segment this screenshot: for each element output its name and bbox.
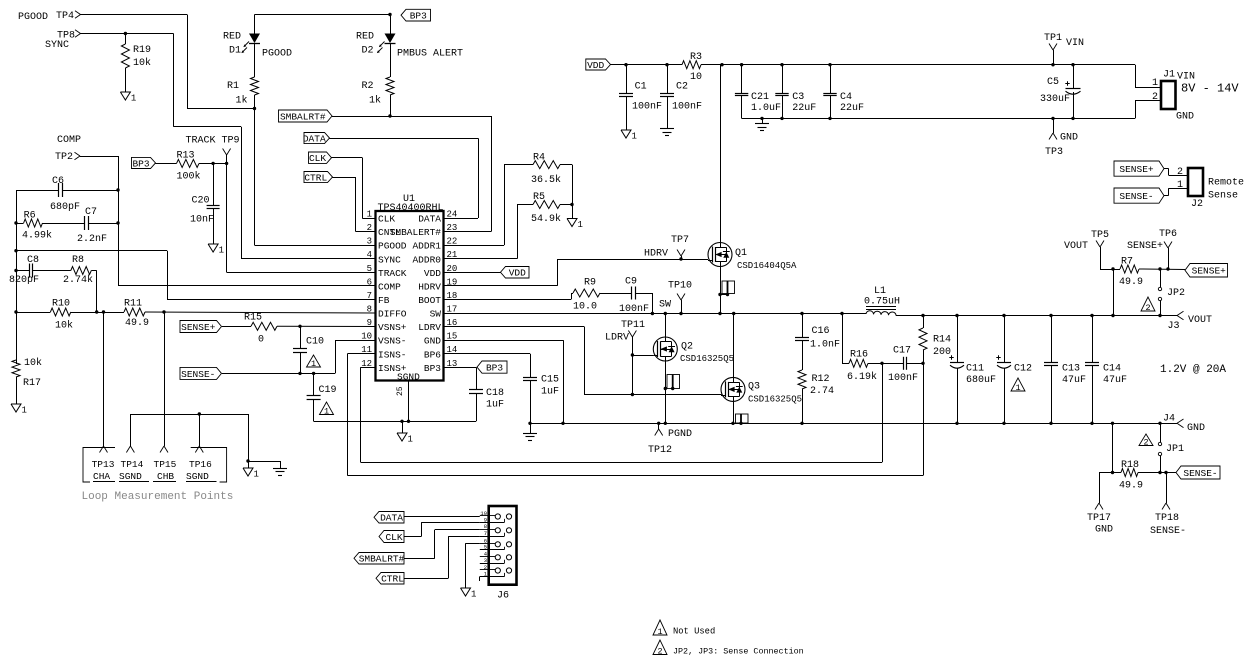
- svg-text:6.19k: 6.19k: [847, 371, 877, 383]
- svg-text:TP1: TP1: [1044, 33, 1062, 44]
- svg-text:C2: C2: [676, 82, 688, 93]
- svg-text:36.5k: 36.5k: [531, 174, 561, 186]
- svg-text:D1: D1: [229, 46, 241, 57]
- svg-text:SENSE+: SENSE+: [1119, 164, 1154, 175]
- svg-text:1: 1: [657, 627, 662, 637]
- svg-text:BP6: BP6: [424, 349, 441, 360]
- svg-text:C12: C12: [1014, 364, 1032, 375]
- svg-text:TP14: TP14: [121, 459, 144, 470]
- svg-text:54.9k: 54.9k: [531, 213, 561, 225]
- svg-text:22uF: 22uF: [792, 103, 816, 114]
- svg-text:2.2nF: 2.2nF: [77, 234, 107, 245]
- svg-text:DATA: DATA: [380, 513, 403, 524]
- svg-text:25: 25: [396, 386, 405, 396]
- svg-text:1.0nF: 1.0nF: [810, 340, 840, 351]
- svg-text:C4: C4: [840, 92, 852, 103]
- svg-text:C14: C14: [1103, 364, 1121, 375]
- svg-text:RED: RED: [223, 32, 241, 43]
- svg-text:C15: C15: [541, 375, 559, 386]
- svg-text:R4: R4: [533, 153, 545, 164]
- svg-text:Q2: Q2: [681, 342, 693, 353]
- svg-text:R7: R7: [1121, 257, 1133, 268]
- svg-text:C6: C6: [52, 176, 64, 187]
- svg-text:CHB: CHB: [157, 471, 174, 482]
- svg-text:PGOOD: PGOOD: [262, 49, 292, 60]
- svg-text:CLK: CLK: [385, 532, 402, 543]
- svg-text:C9: C9: [625, 277, 637, 288]
- svg-text:100nF: 100nF: [672, 102, 702, 113]
- svg-text:SW: SW: [430, 309, 442, 320]
- svg-text:Loop Measurement Points: Loop Measurement Points: [82, 491, 234, 503]
- svg-text:VOUT: VOUT: [1188, 315, 1212, 326]
- svg-text:C3: C3: [792, 92, 804, 103]
- svg-text:R17: R17: [23, 378, 41, 389]
- svg-text:CLK: CLK: [378, 214, 395, 225]
- svg-text:680pF: 680pF: [50, 202, 80, 213]
- svg-text:VSNS-: VSNS-: [378, 336, 407, 347]
- svg-text:CLK: CLK: [309, 153, 326, 164]
- svg-text:J6: J6: [497, 591, 509, 602]
- svg-text:R8: R8: [72, 255, 84, 266]
- svg-text:C8: C8: [27, 255, 39, 266]
- svg-text:1uF: 1uF: [541, 387, 559, 398]
- svg-text:PGOOD: PGOOD: [18, 12, 48, 23]
- svg-text:JP2, JP3: Sense Connection: JP2, JP3: Sense Connection: [673, 647, 804, 657]
- svg-text:C7: C7: [85, 207, 97, 218]
- svg-text:GND: GND: [1060, 133, 1078, 144]
- svg-text:TP15: TP15: [154, 459, 177, 470]
- svg-text:R14: R14: [933, 335, 951, 346]
- svg-text:680uF: 680uF: [966, 375, 996, 386]
- svg-text:100k: 100k: [177, 171, 201, 183]
- svg-text:GND: GND: [1176, 112, 1194, 123]
- svg-text:820pF: 820pF: [9, 275, 39, 286]
- svg-text:ADDR0: ADDR0: [412, 254, 441, 265]
- svg-text:VSNS+: VSNS+: [378, 322, 407, 333]
- svg-text:PGND: PGND: [668, 429, 692, 440]
- svg-text:8: 8: [484, 523, 487, 530]
- svg-text:49.9: 49.9: [1119, 481, 1143, 492]
- svg-text:47uF: 47uF: [1062, 375, 1086, 386]
- svg-text:22uF: 22uF: [840, 103, 864, 114]
- svg-text:C20: C20: [192, 196, 210, 207]
- svg-text:SMBALRT#: SMBALRT#: [280, 111, 326, 122]
- svg-text:CSD16325Q5: CSD16325Q5: [680, 354, 734, 364]
- svg-text:GND: GND: [1187, 423, 1205, 434]
- svg-text:0.75uH: 0.75uH: [864, 297, 900, 308]
- svg-text:SYNC: SYNC: [45, 40, 69, 51]
- svg-text:SENSE-: SENSE-: [181, 369, 215, 380]
- svg-text:R13: R13: [177, 151, 195, 162]
- svg-text:L1: L1: [874, 286, 886, 297]
- svg-text:1: 1: [22, 406, 27, 416]
- svg-text:R15: R15: [244, 313, 262, 324]
- svg-text:10k: 10k: [55, 320, 73, 332]
- svg-text:DATA: DATA: [418, 214, 441, 225]
- svg-text:R1: R1: [227, 81, 239, 92]
- svg-text:DIFFO: DIFFO: [378, 309, 407, 320]
- svg-text:1: 1: [311, 359, 316, 369]
- svg-text:TPS40400RHL: TPS40400RHL: [378, 203, 444, 214]
- svg-text:BP3: BP3: [486, 363, 503, 374]
- svg-text:R11: R11: [124, 299, 142, 310]
- svg-text:1: 1: [471, 590, 476, 600]
- svg-text:SENSE-: SENSE-: [1183, 468, 1217, 479]
- svg-text:GND: GND: [1095, 525, 1113, 536]
- svg-text:R5: R5: [533, 192, 545, 203]
- svg-text:GND: GND: [424, 336, 441, 347]
- svg-text:100nF: 100nF: [632, 102, 662, 113]
- svg-text:SW: SW: [659, 300, 671, 311]
- svg-text:SGND: SGND: [119, 471, 142, 482]
- svg-text:SENSE-: SENSE-: [1119, 191, 1153, 202]
- svg-text:49.9: 49.9: [1119, 277, 1143, 288]
- svg-text:1k: 1k: [369, 95, 381, 107]
- svg-text:C10: C10: [306, 337, 324, 348]
- svg-text:R9: R9: [584, 278, 596, 289]
- svg-text:47uF: 47uF: [1103, 375, 1127, 386]
- svg-text:COMP: COMP: [378, 281, 401, 292]
- svg-text:R16: R16: [850, 350, 868, 361]
- svg-text:2: 2: [1152, 92, 1158, 103]
- svg-text:0: 0: [258, 335, 264, 346]
- svg-text:R6: R6: [24, 211, 36, 222]
- svg-text:4.99k: 4.99k: [22, 230, 52, 242]
- svg-text:BP3: BP3: [410, 11, 427, 22]
- svg-text:1: 1: [408, 435, 413, 445]
- svg-text:J3: J3: [1168, 321, 1180, 332]
- svg-text:TP17: TP17: [1087, 513, 1111, 524]
- svg-text:SMBALERT#: SMBALERT#: [390, 227, 442, 238]
- svg-text:BP3: BP3: [132, 158, 149, 169]
- svg-text:SENSE+: SENSE+: [1127, 241, 1163, 252]
- svg-text:Not Used: Not Used: [673, 627, 715, 637]
- svg-text:R3: R3: [690, 52, 702, 63]
- svg-text:10nF: 10nF: [190, 215, 214, 226]
- svg-text:VDD: VDD: [424, 268, 441, 279]
- svg-text:TRACK: TRACK: [378, 268, 407, 279]
- svg-text:8V - 14V: 8V - 14V: [1181, 82, 1239, 96]
- svg-text:R19: R19: [133, 45, 151, 56]
- svg-text:ISNS-: ISNS-: [378, 349, 407, 360]
- svg-text:HDRV: HDRV: [644, 249, 668, 260]
- svg-text:1: 1: [632, 132, 637, 142]
- svg-text:C11: C11: [966, 364, 984, 375]
- svg-text:C5: C5: [1047, 77, 1059, 88]
- svg-text:JP1: JP1: [1166, 444, 1184, 455]
- svg-text:C16: C16: [812, 326, 830, 337]
- svg-text:BOOT: BOOT: [418, 295, 441, 306]
- svg-text:1.0uF: 1.0uF: [751, 103, 781, 114]
- svg-text:CTRL: CTRL: [381, 574, 404, 585]
- svg-text:CHA: CHA: [93, 471, 110, 482]
- svg-text:TP4: TP4: [56, 11, 74, 22]
- svg-text:J4: J4: [1163, 414, 1175, 425]
- svg-text:1: 1: [1152, 78, 1158, 89]
- svg-text:C19: C19: [319, 385, 337, 396]
- svg-text:D2: D2: [362, 46, 374, 57]
- svg-text:C17: C17: [893, 346, 911, 357]
- svg-text:1: 1: [578, 220, 583, 230]
- svg-text:1k: 1k: [236, 95, 248, 107]
- svg-text:1: 1: [1015, 383, 1020, 393]
- svg-text:200: 200: [933, 347, 951, 358]
- svg-text:CTRL: CTRL: [304, 172, 327, 183]
- svg-text:10: 10: [690, 72, 702, 83]
- svg-text:TP2: TP2: [55, 152, 73, 163]
- svg-text:VDD: VDD: [587, 60, 604, 71]
- svg-text:TP7: TP7: [671, 235, 689, 246]
- svg-text:10k: 10k: [133, 57, 151, 69]
- svg-text:TP3: TP3: [1045, 147, 1063, 158]
- svg-text:Sense: Sense: [1208, 191, 1238, 202]
- svg-text:Q1: Q1: [735, 248, 747, 259]
- svg-text:RED: RED: [356, 32, 374, 43]
- svg-text:LDRV: LDRV: [418, 322, 441, 333]
- svg-text:TP16: TP16: [189, 459, 212, 470]
- svg-text:330uF: 330uF: [1040, 94, 1070, 105]
- svg-text:1: 1: [131, 94, 136, 104]
- svg-text:2: 2: [1145, 303, 1150, 313]
- svg-text:1uF: 1uF: [486, 400, 504, 411]
- svg-text:10.0: 10.0: [573, 302, 597, 313]
- svg-text:R12: R12: [812, 374, 830, 385]
- svg-text:TP13: TP13: [92, 459, 115, 470]
- svg-text:C1: C1: [635, 82, 647, 93]
- svg-text:J1: J1: [1163, 70, 1175, 81]
- svg-text:TP11: TP11: [621, 320, 645, 331]
- svg-text:SENSE-: SENSE-: [1150, 526, 1186, 537]
- svg-text:TRACK TP9: TRACK TP9: [186, 136, 240, 147]
- svg-text:TP5: TP5: [1091, 230, 1109, 241]
- svg-text:7: 7: [484, 530, 487, 537]
- svg-text:BP3: BP3: [424, 363, 441, 374]
- svg-text:VOUT: VOUT: [1064, 241, 1088, 252]
- svg-text:C13: C13: [1062, 364, 1080, 375]
- svg-text:Remote: Remote: [1208, 178, 1244, 189]
- svg-text:100nF: 100nF: [888, 373, 918, 384]
- svg-text:PGOOD: PGOOD: [378, 241, 407, 252]
- svg-text:1.2V @ 20A: 1.2V @ 20A: [1160, 364, 1226, 376]
- svg-text:TP18: TP18: [1155, 513, 1179, 524]
- svg-text:TP12: TP12: [648, 445, 672, 456]
- svg-text:SENSE+: SENSE+: [181, 322, 216, 333]
- svg-text:R2: R2: [362, 81, 374, 92]
- svg-text:HDRV: HDRV: [418, 281, 441, 292]
- svg-text:LDRV: LDRV: [605, 333, 629, 344]
- svg-text:COMP: COMP: [57, 135, 81, 146]
- svg-text:2.74k: 2.74k: [63, 274, 93, 286]
- svg-text:2: 2: [1143, 437, 1148, 447]
- svg-text:DATA: DATA: [303, 133, 326, 144]
- svg-text:1: 1: [219, 246, 224, 256]
- svg-text:JP2: JP2: [1167, 288, 1185, 299]
- svg-text:TP6: TP6: [1159, 229, 1177, 240]
- svg-text:17: 17: [447, 304, 458, 314]
- svg-text:TP10: TP10: [668, 281, 692, 292]
- svg-text:J2: J2: [1191, 199, 1203, 210]
- svg-text:SMBALRT#: SMBALRT#: [359, 554, 405, 565]
- svg-text:1: 1: [1177, 180, 1183, 191]
- svg-text:SYNC: SYNC: [378, 254, 401, 265]
- svg-text:C18: C18: [486, 388, 504, 399]
- svg-text:Q3: Q3: [748, 382, 760, 393]
- svg-text:C21: C21: [751, 92, 769, 103]
- svg-text:2: 2: [1177, 167, 1183, 178]
- svg-text:SGND: SGND: [186, 471, 209, 482]
- svg-text:VDD: VDD: [509, 268, 526, 279]
- svg-text:PMBUS ALERT: PMBUS ALERT: [397, 49, 463, 60]
- svg-text:VIN: VIN: [1066, 38, 1084, 49]
- svg-text:R18: R18: [1121, 460, 1139, 471]
- svg-text:10k: 10k: [24, 357, 42, 369]
- svg-text:2.74: 2.74: [810, 386, 834, 397]
- svg-text:2: 2: [657, 646, 662, 656]
- svg-text:FB: FB: [378, 295, 390, 306]
- svg-text:CSD16404Q5A: CSD16404Q5A: [737, 261, 797, 271]
- svg-text:1: 1: [324, 406, 329, 416]
- svg-text:1: 1: [254, 470, 259, 480]
- svg-text:CSD16325Q5: CSD16325Q5: [748, 395, 802, 405]
- svg-text:SENSE+: SENSE+: [1192, 266, 1227, 277]
- svg-text:ADDR1: ADDR1: [412, 241, 441, 252]
- svg-text:R10: R10: [52, 299, 70, 310]
- svg-text:49.9: 49.9: [125, 318, 149, 329]
